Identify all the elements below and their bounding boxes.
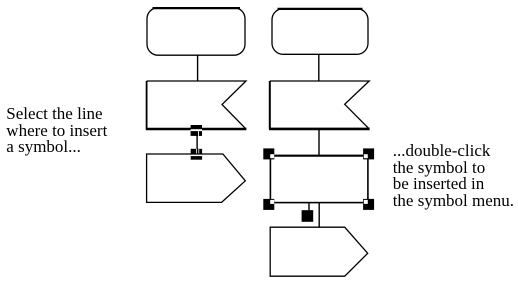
selection handle bottom-left of rectangle bbox=[263, 199, 274, 210]
selection handle bottom-right of rectangle bbox=[363, 199, 374, 210]
pentagon (arrow) symbol right column bbox=[270, 227, 368, 276]
flag symbol right column bbox=[269, 81, 370, 129]
wire: right flag to selected rectangle bbox=[318, 129, 320, 156]
selection handle top-right of rectangle bbox=[363, 148, 374, 159]
wire: right terminator to right flag bbox=[318, 54, 320, 81]
flag symbol left column bbox=[146, 81, 247, 129]
terminator (rounded box) right column bbox=[272, 9, 368, 55]
wire: left flag to left pentagon (selected line) bbox=[196, 129, 198, 154]
wire: left terminator to left flag bbox=[197, 55, 199, 81]
selection handle on top end of selected line bbox=[191, 125, 202, 136]
terminator (rounded box) left column bbox=[147, 8, 245, 56]
selected rectangle (process symbol) right column bbox=[270, 156, 368, 203]
pentagon (arrow) symbol left column bbox=[147, 154, 246, 202]
wire stub for insertion point handle bbox=[308, 203, 310, 211]
insertion point handle (black square) bbox=[302, 210, 314, 222]
wire: selected rectangle to right pentagon bbox=[318, 203, 320, 228]
caption left: select the line bbox=[6, 106, 107, 156]
selection handle top-left of rectangle bbox=[263, 148, 274, 159]
selection handle on bottom end of selected line bbox=[191, 149, 202, 160]
caption right: double-click the symbol bbox=[393, 143, 514, 210]
